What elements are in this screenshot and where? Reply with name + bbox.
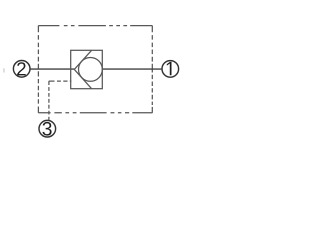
port 1 circle xyxy=(162,61,179,78)
check valve ball xyxy=(79,58,103,82)
check valve body box xyxy=(71,50,103,88)
envelope left edge (dashed) xyxy=(37,26,39,113)
port 3 label digit xyxy=(42,122,51,136)
port 1 label digit xyxy=(167,62,172,75)
check valve seat upper line xyxy=(74,50,91,69)
envelope top edge (long-dash double-short-dash) xyxy=(38,25,152,27)
pilot line horizontal (dashed) xyxy=(49,80,72,82)
port 3 circle xyxy=(39,120,56,137)
wire: port 2 line xyxy=(31,68,75,70)
pilot line vertical (dashed) xyxy=(48,81,50,120)
envelope bottom edge (long-dash double-short-dash) xyxy=(38,112,152,114)
faint artifact mark left of port 2 xyxy=(3,68,5,72)
envelope right edge (dashed) xyxy=(151,26,153,113)
port 2 label digit xyxy=(17,62,26,75)
port 2 circle xyxy=(13,61,30,78)
wire: port 1 line xyxy=(102,68,161,70)
check valve seat lower line xyxy=(74,69,91,88)
